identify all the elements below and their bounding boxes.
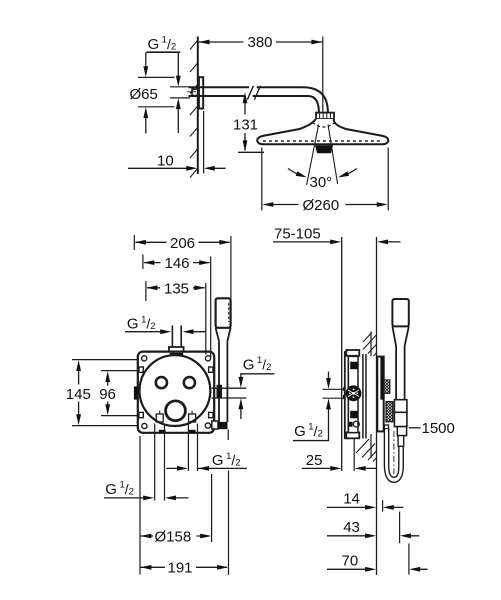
- svg-text:75-105: 75-105: [274, 226, 321, 243]
- svg-text:G1/2: G1/2: [243, 355, 272, 373]
- dim 96: [101, 371, 137, 416]
- bottom hidden ports: [156, 414, 163, 422]
- pipe break: [247, 86, 260, 100]
- hidden ball joint dashed arc: [313, 123, 336, 128]
- wall hatching bottom: [356, 439, 376, 462]
- dim 145: [72, 360, 137, 426]
- 30 deg arrow left: [288, 169, 304, 177]
- svg-text:96: 96: [99, 386, 116, 403]
- wall line: [197, 37, 199, 175]
- bottom port stubs: [159, 430, 166, 434]
- diverter knob: [166, 401, 186, 421]
- svg-text:131: 131: [233, 117, 258, 134]
- dim 191: [227, 430, 229, 576]
- svg-text:G1/2: G1/2: [148, 35, 177, 53]
- svg-text:206: 206: [170, 235, 195, 252]
- dim D158: [140, 436, 212, 575]
- svg-text:380: 380: [248, 34, 273, 51]
- screw TR: [205, 356, 210, 361]
- hand shower side head: [392, 299, 408, 326]
- bottom port extensions: [155, 424, 198, 501]
- hose nut: [397, 427, 406, 436]
- rough-in box side: back plate: [345, 352, 349, 438]
- knob left: [156, 377, 167, 388]
- svg-text:G1/2: G1/2: [294, 422, 323, 440]
- box front edges: [363, 354, 366, 439]
- dim 131: [244, 96, 246, 151]
- svg-text:G1/2: G1/2: [105, 480, 134, 498]
- label 1500: [409, 427, 421, 429]
- hand shower front taper: [216, 328, 231, 341]
- svg-text:43: 43: [343, 519, 360, 536]
- shower arm: [189, 87, 328, 112]
- screw BR: [205, 423, 210, 428]
- clips: [139, 367, 143, 372]
- wall hatching top: [363, 333, 376, 357]
- svg-text:135: 135: [164, 280, 189, 297]
- bottom port black: [350, 411, 358, 419]
- label G1/2 side inlet: [323, 389, 345, 398]
- svg-text:145: 145: [66, 386, 91, 403]
- top lug: [346, 350, 359, 356]
- knob small side: [384, 380, 390, 393]
- cartridge circle: [346, 385, 362, 401]
- hose: [384, 429, 388, 465]
- center spray plate: [315, 145, 333, 153]
- wall hatching: [190, 40, 198, 178]
- hand shower front head: [216, 298, 231, 328]
- extension line head center: [322, 37, 324, 113]
- svg-text:10: 10: [157, 152, 174, 169]
- nozzle dotted line: [263, 140, 383, 142]
- arm collar nut: [316, 113, 334, 119]
- svg-text:Ø158: Ø158: [155, 528, 192, 545]
- svg-text:25: 25: [306, 452, 323, 469]
- 30 deg arrow right: [341, 169, 357, 177]
- svg-text:30°: 30°: [310, 174, 333, 191]
- screw BL: [142, 423, 147, 428]
- hand shower front handle: [219, 341, 227, 422]
- supply pipe stub: [172, 326, 181, 347]
- screw TL: [142, 356, 147, 361]
- svg-text:14: 14: [343, 491, 360, 508]
- svg-text:70: 70: [342, 553, 359, 570]
- top port black: [350, 362, 358, 370]
- drain detail: [349, 422, 353, 427]
- dim 206: [134, 235, 231, 299]
- mounting plate: [138, 352, 214, 433]
- hose outlet: [384, 425, 388, 429]
- svg-text:G1/2: G1/2: [127, 314, 156, 332]
- knob large side: [386, 402, 393, 422]
- hand shower side taper: [392, 326, 408, 346]
- svg-text:1500: 1500: [422, 420, 455, 437]
- svg-text:G1/2: G1/2: [212, 451, 241, 469]
- wall inner lines: [370, 332, 372, 459]
- svg-text:191: 191: [168, 559, 193, 576]
- side port body: [217, 385, 223, 398]
- dim 146: [143, 255, 211, 358]
- dim 135: [146, 281, 206, 355]
- spray angle lines: [307, 125, 338, 186]
- hose centerline: [393, 431, 395, 474]
- holder side: [394, 400, 407, 413]
- box face line: [341, 237, 343, 471]
- wall flange: [199, 77, 203, 108]
- hand shower side handle: [396, 346, 405, 400]
- dim D260: [262, 148, 388, 211]
- dim G1/2 arrows: [170, 87, 190, 98]
- stub collar: [169, 347, 184, 352]
- trim escutcheon side: [377, 357, 383, 432]
- svg-text:Ø65: Ø65: [130, 86, 158, 103]
- knob right: [184, 377, 195, 388]
- dim 380: [198, 41, 323, 43]
- arm centerline in wall: [187, 91, 196, 93]
- inlet stubs: [343, 387, 345, 390]
- shower holder front: [212, 421, 218, 429]
- trim circle: [140, 355, 211, 426]
- top port black: [170, 353, 183, 358]
- shower head body: [257, 119, 388, 144]
- flange face extension: [203, 111, 205, 174]
- svg-text:Ø260: Ø260: [303, 197, 340, 214]
- bottom lug: [346, 432, 359, 438]
- valve body: [348, 356, 358, 432]
- union behind wall: [192, 89, 199, 96]
- svg-text:146: 146: [165, 255, 190, 272]
- side port G1/2 lines: [212, 388, 247, 398]
- wall plane line: [376, 237, 378, 575]
- left side tab: [134, 386, 138, 399]
